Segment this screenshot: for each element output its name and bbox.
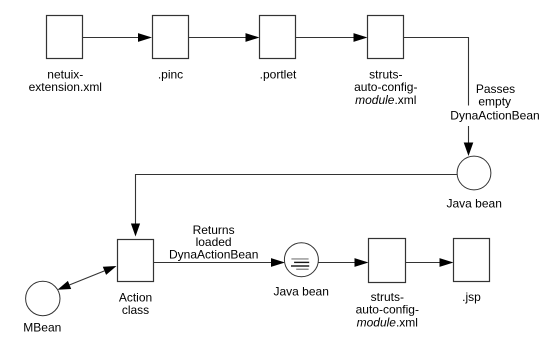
arrowhead into .pinc xyxy=(138,33,152,42)
wire .portlet to struts-auto-config xyxy=(296,37,355,39)
wire struts bottom to .jsp xyxy=(406,262,442,264)
label white backing for DynaActionBean over wire xyxy=(451,106,539,127)
wire MBean to Action class double arrow xyxy=(70,271,105,285)
svg-text:class: class xyxy=(122,303,149,317)
svg-text:.pinc: .pinc xyxy=(158,68,183,82)
box netuix-extension.xml xyxy=(47,16,83,59)
wire netuix to .pinc xyxy=(83,37,140,39)
arrowhead into MBean xyxy=(58,281,72,290)
arrowhead into struts-auto-config xyxy=(354,33,368,42)
svg-text:MBean: MBean xyxy=(23,321,61,335)
svg-text:empty: empty xyxy=(478,94,511,108)
wire .pinc to .portlet xyxy=(189,37,247,39)
box struts-auto-config-module.xml top xyxy=(368,16,404,59)
arrowhead into Java bean bottom xyxy=(271,258,285,267)
circle Java bean top xyxy=(457,156,491,190)
bean bar 1 xyxy=(291,258,308,259)
wire Action class to Java bean circle bottom xyxy=(154,262,273,264)
wire Java bean bottom to struts box bottom xyxy=(319,262,357,264)
svg-text:Java bean: Java bean xyxy=(447,197,502,211)
arrowhead down into Java bean circle xyxy=(464,143,474,157)
arrowhead into Action class xyxy=(103,266,117,275)
circle Java bean bottom xyxy=(284,243,318,277)
arrowhead into .jsp xyxy=(440,258,454,267)
box .pinc xyxy=(153,16,189,59)
svg-text:.portlet: .portlet xyxy=(260,68,297,82)
svg-text:DynaActionBean: DynaActionBean xyxy=(450,108,539,122)
svg-text:.jsp: .jsp xyxy=(462,290,481,304)
svg-text:module.xml: module.xml xyxy=(355,93,416,107)
svg-text:module.xml: module.xml xyxy=(357,316,418,330)
circle MBean xyxy=(26,281,60,315)
svg-text:auto-config-: auto-config- xyxy=(354,80,417,94)
arrowhead into .portlet xyxy=(246,33,260,42)
box .jsp xyxy=(454,239,490,282)
box .portlet xyxy=(260,16,296,59)
arrowhead down into Action class xyxy=(131,224,140,237)
box Action class xyxy=(118,240,154,282)
bean bar 4 xyxy=(296,269,308,270)
svg-text:extension.xml: extension.xml xyxy=(29,80,102,94)
svg-text:Java bean: Java bean xyxy=(274,285,329,299)
svg-text:DynaActionBean: DynaActionBean xyxy=(169,248,258,262)
wire Java bean circle to Action class (left then down) xyxy=(136,175,458,227)
bean bar 3 xyxy=(291,265,309,266)
bean bar 2 xyxy=(294,262,309,263)
arrowhead into struts box bottom xyxy=(355,258,369,267)
box struts-auto-config-module.xml bottom xyxy=(369,239,406,283)
wire struts box to Java bean circle (right then down) xyxy=(404,38,469,146)
svg-text:auto-config-: auto-config- xyxy=(356,302,419,316)
